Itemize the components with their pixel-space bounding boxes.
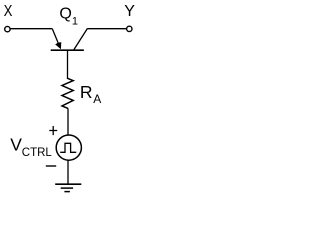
collector line	[74, 29, 88, 50]
wire RA to VCTRL	[67, 108, 69, 134]
polarity plus	[49, 126, 57, 135]
svg-text:CTRL: CTRL	[22, 147, 53, 159]
wire X to Q1 emitter	[10, 28, 52, 30]
voltage source VCTRL	[56, 135, 81, 160]
emitter line	[52, 29, 59, 45]
emitter arrowhead	[55, 42, 61, 49]
ground	[55, 184, 81, 191]
pulse waveform symbol	[60, 143, 76, 152]
svg-text:X: X	[4, 3, 13, 20]
svg-text:R: R	[80, 82, 93, 102]
base bar	[51, 49, 84, 51]
terminal X	[5, 26, 10, 31]
svg-text:V: V	[10, 135, 22, 155]
svg-text:A: A	[93, 92, 101, 106]
transistor Q1	[51, 29, 88, 51]
svg-text:1: 1	[72, 16, 78, 28]
svg-text:Y: Y	[124, 3, 135, 20]
wire Q1 collector to Y	[87, 28, 126, 30]
wire Q1 base to RA	[67, 50, 69, 79]
svg-text:Q: Q	[59, 6, 71, 23]
terminal Y	[127, 26, 132, 31]
resistor RA	[62, 78, 73, 108]
wire VCTRL to ground	[67, 160, 69, 184]
polarity minus	[46, 165, 56, 167]
